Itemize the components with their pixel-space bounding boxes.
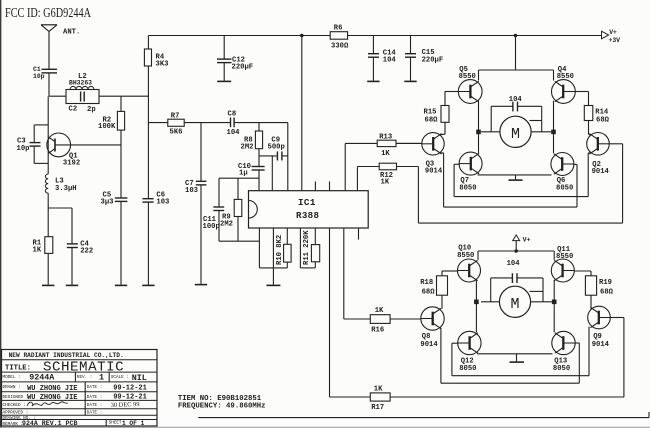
svg-text:104: 104 xyxy=(383,57,397,65)
svg-text:68Ω: 68Ω xyxy=(596,117,610,125)
svg-text:1K: 1K xyxy=(375,307,384,315)
svg-text:TITLE:: TITLE: xyxy=(5,364,31,372)
svg-text:500p: 500p xyxy=(268,143,285,151)
svg-text:2M2: 2M2 xyxy=(241,143,254,151)
svg-text:ANT.: ANT. xyxy=(63,29,80,37)
svg-text:3K3: 3K3 xyxy=(156,61,169,69)
svg-text:R11 220K: R11 220K xyxy=(303,230,311,265)
svg-text:1 OF 1: 1 OF 1 xyxy=(122,420,145,427)
svg-text:C8: C8 xyxy=(228,111,237,119)
svg-text:+3V: +3V xyxy=(609,37,621,44)
svg-text:DRAWN :: DRAWN : xyxy=(3,385,21,390)
svg-text:2M2: 2M2 xyxy=(220,221,233,229)
svg-text:9244A: 9244A xyxy=(29,372,55,382)
svg-text:R13: R13 xyxy=(379,134,392,142)
svg-text:68Ω: 68Ω xyxy=(425,117,439,125)
svg-text:68Ω: 68Ω xyxy=(422,289,436,297)
svg-text:9014: 9014 xyxy=(592,168,610,176)
svg-text:8550: 8550 xyxy=(557,73,574,81)
svg-text:V+: V+ xyxy=(523,237,531,244)
svg-text:1: 1 xyxy=(99,372,104,382)
svg-text:1K: 1K xyxy=(33,246,42,254)
svg-text:220μF: 220μF xyxy=(422,57,444,65)
svg-text:222: 222 xyxy=(80,247,93,255)
svg-text:68Ω: 68Ω xyxy=(600,289,614,297)
svg-text:2p: 2p xyxy=(87,106,96,114)
svg-text:DATE :: DATE : xyxy=(87,385,102,390)
svg-text:1K: 1K xyxy=(381,179,390,187)
svg-text:FREQUENCY: 49.860MHz: FREQUENCY: 49.860MHz xyxy=(178,403,266,411)
svg-text:99-12-21: 99-12-21 xyxy=(113,385,147,393)
svg-text:MODEL :: MODEL : xyxy=(3,375,21,380)
svg-text:8550: 8550 xyxy=(459,73,476,81)
svg-text:SCHEMATIC: SCHEMATIC xyxy=(43,360,124,376)
svg-text:NEW RADIANT INDUSTRIAL CO.,LTD: NEW RADIANT INDUSTRIAL CO.,LTD. xyxy=(9,352,124,359)
svg-text:103: 103 xyxy=(185,187,198,195)
svg-text:9014: 9014 xyxy=(425,168,443,176)
svg-text:REMARK :: REMARK : xyxy=(3,422,24,427)
svg-text:100p: 100p xyxy=(203,223,220,231)
svg-text:IC1: IC1 xyxy=(298,197,316,208)
svg-text:5K6: 5K6 xyxy=(170,129,183,137)
svg-text:8550: 8550 xyxy=(457,252,474,260)
svg-text:220μF: 220μF xyxy=(232,64,254,72)
svg-text:NIL: NIL xyxy=(132,373,147,383)
svg-text:DATE :: DATE : xyxy=(87,403,102,408)
svg-text:C1: C1 xyxy=(33,66,41,73)
svg-text:R6: R6 xyxy=(334,25,343,33)
svg-text:30 DEC 99: 30 DEC 99 xyxy=(111,401,140,409)
svg-text:3192: 3192 xyxy=(63,160,80,168)
svg-text:R19: R19 xyxy=(599,279,612,287)
svg-text:R388: R388 xyxy=(296,210,319,221)
svg-text:C2: C2 xyxy=(69,106,78,114)
svg-text:R7: R7 xyxy=(171,113,180,121)
svg-text:104: 104 xyxy=(509,96,523,104)
svg-text:9014: 9014 xyxy=(592,341,610,349)
svg-text:R10 8K2: R10 8K2 xyxy=(276,235,284,265)
svg-text:CHECKED :: CHECKED : xyxy=(3,403,26,408)
svg-text:SCALE :: SCALE : xyxy=(111,375,129,380)
svg-text:WU ZHONG JIE: WU ZHONG JIE xyxy=(27,385,77,393)
svg-text:WU ZHONG JIE: WU ZHONG JIE xyxy=(27,394,77,402)
svg-text:10p: 10p xyxy=(33,73,45,80)
svg-text:9014: 9014 xyxy=(420,341,438,349)
svg-text:3μ3: 3μ3 xyxy=(101,199,114,207)
svg-text:R16: R16 xyxy=(371,327,384,335)
svg-text:M: M xyxy=(510,296,519,313)
svg-text:R15: R15 xyxy=(424,109,437,117)
svg-text:FCC ID: G6D9244A: FCC ID: G6D9244A xyxy=(5,5,91,20)
svg-text:APPROVED :: APPROVED : xyxy=(3,411,29,416)
svg-text:330Ω: 330Ω xyxy=(331,43,349,51)
svg-text:10p: 10p xyxy=(17,145,30,153)
svg-text:8050: 8050 xyxy=(556,184,573,192)
svg-text:REV. :: REV. : xyxy=(77,375,92,380)
svg-text:R18: R18 xyxy=(420,279,433,287)
svg-text:8550: 8550 xyxy=(556,253,573,261)
svg-text:BH3263: BH3263 xyxy=(69,80,92,87)
svg-text:1K: 1K xyxy=(381,150,390,158)
svg-text:DESIGNED :: DESIGNED : xyxy=(3,395,29,400)
svg-text:104: 104 xyxy=(507,260,521,268)
svg-text:100K: 100K xyxy=(98,123,116,131)
svg-text:8050: 8050 xyxy=(553,365,570,373)
svg-text:V+: V+ xyxy=(609,29,617,36)
svg-text:924A REV.1 PCB: 924A REV.1 PCB xyxy=(22,420,77,427)
svg-text:DATE :: DATE : xyxy=(87,395,102,400)
svg-text:R17: R17 xyxy=(371,404,384,412)
svg-text:R14: R14 xyxy=(595,109,609,117)
svg-text:103: 103 xyxy=(156,199,169,207)
svg-text:M: M xyxy=(511,126,520,143)
svg-text:3.3μH: 3.3μH xyxy=(55,185,77,193)
svg-text:SHEET: SHEET xyxy=(109,421,122,426)
svg-text:8050: 8050 xyxy=(459,184,476,192)
svg-text:104: 104 xyxy=(227,129,241,137)
svg-text:8050: 8050 xyxy=(459,365,476,373)
svg-text:1μ: 1μ xyxy=(239,170,248,178)
svg-text:1K: 1K xyxy=(374,386,383,394)
svg-text:DATE :: DATE : xyxy=(87,411,102,416)
